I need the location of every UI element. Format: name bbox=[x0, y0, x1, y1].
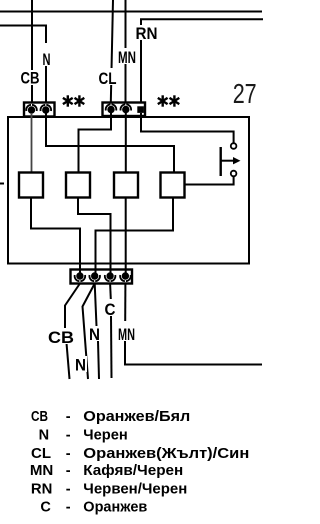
relay coil R3 bbox=[114, 173, 138, 198]
connector block J1 (top left, 2 terminals) bbox=[24, 103, 55, 117]
svg-text:MN: MN bbox=[118, 325, 135, 344]
wire RN to switch bbox=[141, 113, 234, 143]
label CL (top) bbox=[97, 68, 118, 88]
svg-text:RN: RN bbox=[136, 24, 158, 43]
wire R4 to T2 bbox=[96, 198, 174, 274]
svg-text:Черен: Черен bbox=[83, 428, 128, 444]
svg-text:CB: CB bbox=[48, 328, 74, 347]
svg-text:-: - bbox=[66, 409, 71, 425]
label CB (top) bbox=[19, 69, 41, 88]
relay coil R2 bbox=[66, 173, 90, 198]
label N (top) bbox=[41, 50, 52, 69]
legend row RN bbox=[31, 481, 187, 497]
wire N to R4 bbox=[46, 113, 174, 173]
label RN (top) bbox=[134, 24, 159, 43]
svg-text:27: 27 bbox=[233, 78, 257, 109]
svg-text:Оранжев/Бял: Оранжев/Бял bbox=[83, 409, 190, 425]
svg-text:CL: CL bbox=[99, 69, 117, 88]
wire switch to R4 bbox=[185, 176, 234, 184]
svg-text:-: - bbox=[66, 500, 71, 516]
wire R3 to T4 bbox=[125, 198, 127, 274]
svg-text:CB: CB bbox=[21, 69, 40, 88]
label MN (top) bbox=[117, 48, 137, 67]
wire CB feed bbox=[31, 0, 33, 103]
legend row C bbox=[40, 500, 147, 516]
wire RN feed bbox=[141, 19, 263, 102]
connector block J2 (top right, 3 terminals) bbox=[103, 103, 146, 117]
wire R1 to T1 bbox=[31, 198, 80, 274]
wire J2-1 to R2 bbox=[79, 113, 112, 173]
svg-text:Кафяв/Черен: Кафяв/Черен bbox=[83, 463, 183, 479]
legend row N bbox=[39, 428, 128, 444]
svg-text:Оранжев(Жълт)/Син: Оранжев(Жълт)/Син bbox=[83, 446, 249, 462]
wire MN to R3 bbox=[125, 113, 127, 173]
svg-text:-: - bbox=[66, 428, 71, 444]
wire MN feed bbox=[125, 0, 127, 103]
svg-text:-: - bbox=[66, 446, 71, 462]
svg-text:N: N bbox=[89, 325, 100, 344]
wire N out (straight branch) bbox=[95, 284, 97, 327]
wire C out bbox=[109, 284, 112, 300]
svg-text:Оранжев: Оранжев bbox=[83, 500, 147, 516]
wire CB to R1 bbox=[31, 113, 33, 173]
svg-text:CB: CB bbox=[31, 409, 48, 425]
svg-text:MN: MN bbox=[118, 48, 136, 67]
label N (bottom low) bbox=[73, 356, 87, 375]
note ** right bbox=[158, 95, 180, 106]
svg-text:CL: CL bbox=[31, 446, 51, 462]
svg-text:RN: RN bbox=[31, 481, 53, 497]
label CB (bottom) bbox=[46, 328, 76, 347]
svg-text:MN: MN bbox=[30, 463, 54, 479]
note ** left bbox=[63, 95, 84, 106]
legend row CL bbox=[31, 446, 249, 462]
relay coil R1 bbox=[19, 173, 43, 198]
wire MN out bbox=[124, 284, 126, 322]
legend row MN bbox=[30, 463, 183, 479]
label MN (bottom) bbox=[117, 325, 137, 344]
svg-text:N: N bbox=[75, 356, 86, 375]
wire N out (slanted branch) bbox=[83, 284, 95, 380]
svg-text:N: N bbox=[43, 50, 51, 69]
svg-text:N: N bbox=[39, 428, 50, 444]
label N (bottom mid) bbox=[87, 325, 102, 344]
wire stub left edge bbox=[0, 183, 4, 185]
wire CB out bbox=[65, 284, 80, 329]
wire H1 top bus bbox=[0, 11, 262, 13]
svg-text:-: - bbox=[66, 463, 71, 479]
svg-text:C: C bbox=[105, 300, 116, 319]
svg-text:Червен/Черен: Червен/Черен bbox=[83, 481, 187, 497]
wire CL feed bbox=[111, 0, 113, 103]
switch S1 bbox=[221, 143, 241, 176]
legend row CB bbox=[31, 409, 190, 425]
label C (bottom) bbox=[103, 299, 117, 319]
svg-text:C: C bbox=[40, 500, 51, 516]
relay coil R4 bbox=[161, 173, 185, 198]
wire R2 to T3 bbox=[78, 198, 111, 274]
wire N feed bbox=[0, 26, 46, 44]
component box U1 bbox=[8, 117, 249, 264]
connector strip J3 (bottom, 4 terminals) bbox=[71, 270, 133, 284]
svg-text:-: - bbox=[66, 481, 71, 497]
